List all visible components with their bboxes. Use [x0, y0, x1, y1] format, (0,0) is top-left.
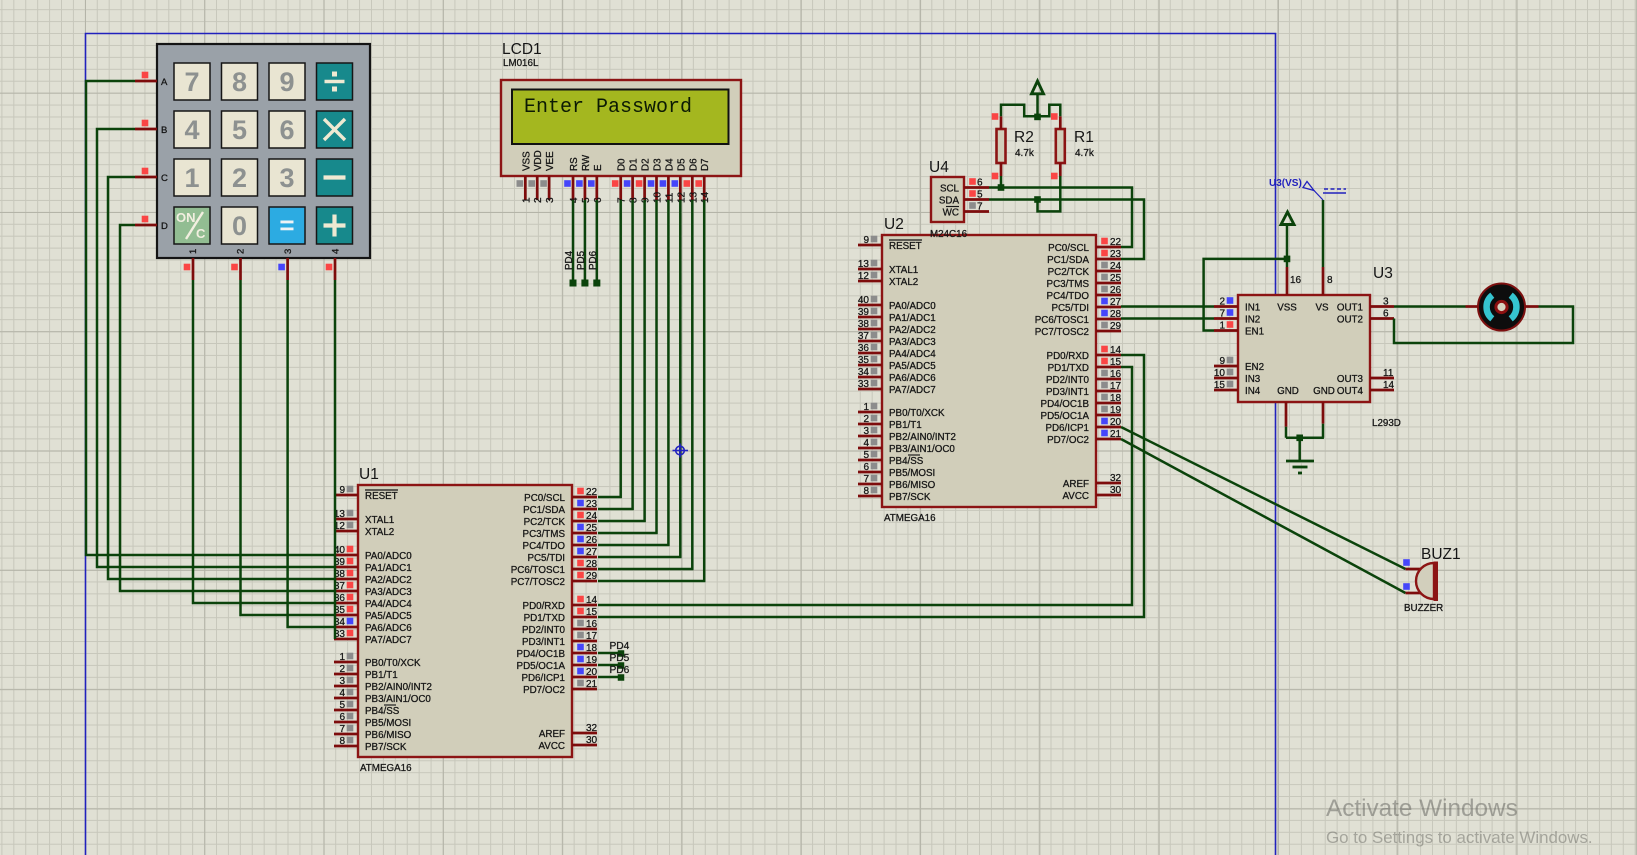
svg-text:12: 12: [858, 271, 870, 282]
svg-text:PB0/T0/XCK: PB0/T0/XCK: [365, 658, 421, 669]
svg-text:26: 26: [1110, 285, 1122, 296]
svg-text:4: 4: [863, 438, 869, 449]
svg-text:VDD: VDD: [533, 150, 544, 171]
svg-text:EN2: EN2: [1245, 362, 1264, 373]
svg-text:BUZZER: BUZZER: [1404, 603, 1443, 614]
svg-text:PA2/ADC2: PA2/ADC2: [365, 575, 412, 586]
svg-text:L293D: L293D: [1372, 418, 1401, 429]
svg-text:LCD1: LCD1: [502, 41, 542, 58]
svg-text:XTAL1: XTAL1: [365, 515, 394, 526]
svg-text:22: 22: [586, 487, 598, 498]
svg-text:3: 3: [339, 676, 345, 687]
svg-text:RESET: RESET: [365, 491, 398, 502]
svg-text:GND: GND: [1313, 386, 1335, 397]
svg-text:6: 6: [863, 462, 869, 473]
svg-text:21: 21: [586, 679, 598, 690]
svg-text:23: 23: [1110, 249, 1122, 260]
svg-text:PD4/OC1B: PD4/OC1B: [517, 649, 566, 660]
svg-text:IN2: IN2: [1245, 315, 1260, 326]
svg-text:SCL: SCL: [940, 184, 960, 195]
svg-text:PB7/SCK: PB7/SCK: [889, 492, 931, 503]
svg-text:27: 27: [1110, 297, 1122, 308]
svg-text:D5: D5: [676, 158, 687, 171]
svg-text:D7: D7: [700, 158, 711, 171]
svg-text:OUT2: OUT2: [1337, 315, 1363, 326]
svg-text:16: 16: [1110, 369, 1122, 380]
svg-text:9: 9: [279, 67, 294, 97]
svg-text:5: 5: [232, 115, 247, 145]
svg-text:PC6/TOSC1: PC6/TOSC1: [511, 565, 565, 576]
svg-text:14: 14: [700, 191, 711, 203]
svg-text:PA6/ADC6: PA6/ADC6: [889, 373, 936, 384]
svg-text:RS: RS: [569, 157, 580, 171]
svg-text:R1: R1: [1074, 129, 1094, 146]
svg-text:28: 28: [586, 559, 598, 570]
svg-text:PB3/AIN1/OC0: PB3/AIN1/OC0: [365, 694, 431, 705]
svg-text:PD1/TXD: PD1/TXD: [1048, 363, 1089, 374]
svg-text:2: 2: [339, 664, 345, 675]
svg-text:1: 1: [184, 163, 199, 193]
svg-text:ON: ON: [176, 210, 196, 225]
svg-text:1: 1: [188, 249, 199, 254]
svg-text:WC: WC: [943, 208, 959, 219]
svg-text:20: 20: [586, 667, 598, 678]
svg-text:PA0/ADC0: PA0/ADC0: [889, 301, 936, 312]
svg-text:28: 28: [1110, 309, 1122, 320]
svg-text:AREF: AREF: [1063, 479, 1089, 490]
svg-text:40: 40: [858, 295, 870, 306]
svg-text:PC0/SCL: PC0/SCL: [524, 493, 565, 504]
svg-text:PD0/RXD: PD0/RXD: [1047, 351, 1089, 362]
svg-text:12: 12: [676, 191, 687, 203]
svg-text:17: 17: [586, 631, 598, 642]
svg-text:16: 16: [586, 619, 598, 630]
svg-text:7: 7: [977, 202, 983, 213]
svg-text:PD6/ICP1: PD6/ICP1: [521, 673, 565, 684]
svg-text:PC7/TOSC2: PC7/TOSC2: [511, 577, 565, 588]
svg-text:PC5/TDI: PC5/TDI: [1051, 303, 1089, 314]
svg-text:27: 27: [586, 547, 598, 558]
svg-text:PD7/OC2: PD7/OC2: [523, 685, 565, 696]
svg-text:U4: U4: [929, 159, 949, 176]
svg-text:8: 8: [339, 736, 345, 747]
svg-text:7: 7: [1219, 309, 1225, 320]
svg-text:PC1/SDA: PC1/SDA: [523, 505, 565, 516]
svg-text:2: 2: [236, 249, 247, 254]
svg-text:33: 33: [858, 379, 870, 390]
svg-text:1: 1: [521, 197, 532, 203]
svg-text:7: 7: [339, 724, 345, 735]
svg-text:PA2/ADC2: PA2/ADC2: [889, 325, 936, 336]
svg-text:PB4/SS: PB4/SS: [889, 456, 924, 467]
svg-text:PB6/MISO: PB6/MISO: [365, 730, 412, 741]
svg-text:3: 3: [283, 249, 294, 254]
svg-text:8: 8: [232, 67, 247, 97]
svg-text:13: 13: [858, 259, 870, 270]
svg-text:25: 25: [586, 523, 598, 534]
svg-text:38: 38: [858, 319, 870, 330]
svg-text:PD2/INT0: PD2/INT0: [522, 625, 566, 636]
svg-text:D1: D1: [629, 158, 640, 171]
svg-text:36: 36: [858, 343, 870, 354]
svg-text:PA5/ADC5: PA5/ADC5: [365, 611, 412, 622]
svg-text:7: 7: [863, 474, 869, 485]
svg-text:32: 32: [1110, 473, 1122, 484]
svg-text:3: 3: [1383, 297, 1389, 308]
svg-text:22: 22: [1110, 237, 1122, 248]
svg-text:PC4/TDO: PC4/TDO: [1047, 291, 1090, 302]
svg-text:Go to Settings to activate Win: Go to Settings to activate Windows.: [1326, 828, 1593, 847]
svg-text:PC6/TOSC1: PC6/TOSC1: [1035, 315, 1089, 326]
svg-text:14: 14: [1383, 380, 1395, 391]
svg-text:15: 15: [1110, 357, 1122, 368]
svg-text:PC2/TCK: PC2/TCK: [524, 517, 566, 528]
svg-text:PA7/ADC7: PA7/ADC7: [365, 635, 412, 646]
svg-text:AREF: AREF: [539, 729, 565, 740]
svg-text:6: 6: [593, 197, 604, 203]
svg-text:16: 16: [1290, 275, 1302, 286]
svg-text:18: 18: [1110, 393, 1122, 404]
svg-text:26: 26: [586, 535, 598, 546]
svg-text:D6: D6: [688, 158, 699, 171]
svg-text:PB5/MOSI: PB5/MOSI: [365, 718, 411, 729]
svg-text:EN1: EN1: [1245, 327, 1264, 338]
svg-text:=: =: [279, 210, 294, 240]
svg-text:30: 30: [1110, 485, 1122, 496]
svg-text:B: B: [161, 125, 167, 136]
svg-text:PB4/SS: PB4/SS: [365, 706, 400, 717]
svg-text:PC0/SCL: PC0/SCL: [1048, 243, 1089, 254]
svg-text:30: 30: [586, 735, 598, 746]
svg-text:D0: D0: [617, 158, 628, 171]
svg-text:U1: U1: [359, 466, 379, 483]
svg-text:LM016L: LM016L: [503, 58, 539, 69]
svg-text:M24C16: M24C16: [930, 229, 968, 240]
svg-text:Activate Windows: Activate Windows: [1326, 795, 1518, 822]
svg-text:RESET: RESET: [889, 241, 922, 252]
svg-text:6: 6: [977, 178, 983, 189]
svg-text:VSS: VSS: [521, 151, 532, 171]
svg-text:IN4: IN4: [1245, 386, 1261, 397]
svg-text:PD6/ICP1: PD6/ICP1: [1045, 423, 1089, 434]
svg-text:17: 17: [1110, 381, 1122, 392]
svg-text:7: 7: [617, 197, 628, 203]
svg-text:PD0/RXD: PD0/RXD: [523, 601, 565, 612]
svg-text:39: 39: [858, 307, 870, 318]
svg-text:1: 1: [1219, 321, 1225, 332]
svg-text:14: 14: [1110, 345, 1122, 356]
svg-text:1: 1: [339, 652, 345, 663]
svg-text:PB5/MOSI: PB5/MOSI: [889, 468, 935, 479]
svg-text:11: 11: [1383, 368, 1394, 379]
svg-text:2: 2: [533, 197, 544, 203]
svg-text:PD3/INT1: PD3/INT1: [1046, 387, 1089, 398]
svg-text:PD5: PD5: [576, 250, 587, 270]
svg-text:15: 15: [586, 607, 598, 618]
svg-text:PA3/ADC3: PA3/ADC3: [365, 587, 412, 598]
svg-text:PC3/TMS: PC3/TMS: [1047, 279, 1090, 290]
svg-text:37: 37: [858, 331, 870, 342]
svg-text:PD5/OC1A: PD5/OC1A: [517, 661, 566, 672]
svg-text:PD3/INT1: PD3/INT1: [522, 637, 565, 648]
svg-text:PC4/TDO: PC4/TDO: [523, 541, 566, 552]
svg-text:VSS: VSS: [1277, 303, 1297, 314]
svg-text:OUT4: OUT4: [1337, 386, 1364, 397]
svg-text:4: 4: [184, 115, 199, 145]
svg-text:R2: R2: [1014, 129, 1034, 146]
svg-text:ATMEGA16: ATMEGA16: [360, 763, 412, 774]
svg-text:PD4/OC1B: PD4/OC1B: [1041, 399, 1090, 410]
svg-text:3: 3: [863, 426, 869, 437]
svg-text:PA7/ADC7: PA7/ADC7: [889, 385, 936, 396]
svg-text:PB7/SCK: PB7/SCK: [365, 742, 407, 753]
svg-text:IN3: IN3: [1245, 374, 1261, 385]
svg-text:4.7k: 4.7k: [1015, 148, 1035, 159]
svg-text:PD7/OC2: PD7/OC2: [1047, 435, 1089, 446]
svg-text:8: 8: [1327, 275, 1333, 286]
svg-text:PC5/TDI: PC5/TDI: [527, 553, 565, 564]
svg-text:PD5/OC1A: PD5/OC1A: [1041, 411, 1090, 422]
svg-text:34: 34: [858, 367, 870, 378]
svg-text:24: 24: [586, 511, 598, 522]
svg-text:3: 3: [279, 163, 294, 193]
svg-text:PB3/AIN1/OC0: PB3/AIN1/OC0: [889, 444, 955, 455]
svg-text:10: 10: [1214, 368, 1226, 379]
svg-text:PA3/ADC3: PA3/ADC3: [889, 337, 936, 348]
svg-text:XTAL1: XTAL1: [889, 265, 918, 276]
svg-text:9: 9: [863, 235, 869, 246]
svg-text:6: 6: [339, 712, 345, 723]
svg-text:25: 25: [1110, 273, 1122, 284]
svg-text:4.7k: 4.7k: [1075, 148, 1095, 159]
svg-text:U3(VS): U3(VS): [1269, 178, 1302, 189]
svg-text:GND: GND: [1277, 386, 1299, 397]
svg-text:3: 3: [545, 197, 556, 203]
svg-text:U3: U3: [1373, 265, 1393, 282]
svg-text:PA4/ADC4: PA4/ADC4: [889, 349, 936, 360]
svg-text:PA6/ADC6: PA6/ADC6: [365, 623, 412, 634]
svg-text:XTAL2: XTAL2: [365, 527, 394, 538]
svg-text:PD6: PD6: [610, 665, 630, 676]
svg-text:0: 0: [232, 211, 247, 241]
svg-text:1: 1: [863, 402, 869, 413]
svg-text:PA0/ADC0: PA0/ADC0: [365, 551, 412, 562]
svg-text:10: 10: [653, 191, 664, 203]
svg-text:PD6: PD6: [588, 250, 599, 270]
svg-text:5: 5: [863, 450, 869, 461]
svg-text:OUT1: OUT1: [1337, 303, 1363, 314]
svg-text:A: A: [161, 77, 168, 88]
svg-text:AVCC: AVCC: [1063, 491, 1090, 502]
svg-text:19: 19: [586, 655, 598, 666]
svg-text:5: 5: [581, 197, 592, 203]
svg-text:13: 13: [688, 191, 699, 203]
svg-text:PC1/SDA: PC1/SDA: [1047, 255, 1089, 266]
svg-text:PA1/ADC1: PA1/ADC1: [889, 313, 936, 324]
svg-text:D4: D4: [664, 158, 675, 171]
svg-text:2: 2: [232, 163, 247, 193]
svg-text:C: C: [196, 226, 206, 241]
svg-text:PD4: PD4: [610, 641, 630, 652]
svg-text:PB1/T1: PB1/T1: [889, 420, 922, 431]
svg-text:PA1/ADC1: PA1/ADC1: [365, 563, 412, 574]
svg-text:D: D: [161, 221, 168, 232]
svg-text:20: 20: [1110, 417, 1122, 428]
svg-text:PC2/TCK: PC2/TCK: [1048, 267, 1090, 278]
svg-text:PD2/INT0: PD2/INT0: [1046, 375, 1090, 386]
svg-text:PA5/ADC5: PA5/ADC5: [889, 361, 936, 372]
svg-text:IN1: IN1: [1245, 303, 1260, 314]
svg-text:19: 19: [1110, 405, 1122, 416]
svg-text:VS: VS: [1315, 303, 1329, 314]
svg-text:PB0/T0/XCK: PB0/T0/XCK: [889, 408, 945, 419]
svg-text:29: 29: [1110, 321, 1122, 332]
svg-text:SDA: SDA: [939, 196, 960, 207]
svg-text:E: E: [593, 164, 604, 171]
svg-text:PB2/AIN0/INT2: PB2/AIN0/INT2: [889, 432, 956, 443]
svg-text:PD5: PD5: [610, 653, 630, 664]
svg-text:D2: D2: [641, 158, 652, 171]
svg-text:PC3/TMS: PC3/TMS: [523, 529, 566, 540]
svg-text:9: 9: [1219, 356, 1225, 367]
svg-text:4: 4: [569, 197, 580, 203]
svg-text:4: 4: [339, 688, 345, 699]
svg-text:9: 9: [339, 485, 345, 496]
svg-text:9: 9: [641, 197, 652, 203]
svg-text:PB2/AIN0/INT2: PB2/AIN0/INT2: [365, 682, 432, 693]
svg-text:BUZ1: BUZ1: [1421, 546, 1461, 563]
svg-text:21: 21: [1110, 429, 1122, 440]
svg-text:ATMEGA16: ATMEGA16: [884, 513, 936, 524]
svg-text:8: 8: [863, 486, 869, 497]
svg-text:AVCC: AVCC: [539, 741, 566, 752]
svg-text:PB6/MISO: PB6/MISO: [889, 480, 936, 491]
svg-text:XTAL2: XTAL2: [889, 277, 918, 288]
svg-text:PC7/TOSC2: PC7/TOSC2: [1035, 327, 1089, 338]
svg-text:18: 18: [586, 643, 598, 654]
svg-text:6: 6: [279, 115, 294, 145]
svg-text:C: C: [161, 173, 168, 184]
svg-text:11: 11: [664, 192, 675, 203]
svg-text:PA4/ADC4: PA4/ADC4: [365, 599, 412, 610]
svg-text:7: 7: [184, 67, 199, 97]
svg-text:23: 23: [586, 499, 598, 510]
svg-text:D3: D3: [653, 158, 664, 171]
svg-text:29: 29: [586, 571, 598, 582]
svg-text:2: 2: [863, 414, 869, 425]
svg-text:PB1/T1: PB1/T1: [365, 670, 398, 681]
svg-text:PD4: PD4: [564, 250, 575, 270]
svg-text:35: 35: [858, 355, 870, 366]
svg-text:Enter Password: Enter Password: [524, 96, 692, 119]
svg-text:2: 2: [1219, 297, 1225, 308]
svg-text:OUT3: OUT3: [1337, 374, 1364, 385]
svg-text:32: 32: [586, 723, 598, 734]
svg-text:4: 4: [331, 249, 342, 254]
svg-text:15: 15: [1214, 380, 1226, 391]
svg-text:5: 5: [977, 190, 983, 201]
svg-text:14: 14: [586, 595, 598, 606]
svg-text:8: 8: [629, 197, 640, 203]
svg-text:5: 5: [339, 700, 345, 711]
svg-text:RW: RW: [581, 154, 592, 171]
svg-text:PD1/TXD: PD1/TXD: [524, 613, 565, 624]
svg-text:VEE: VEE: [545, 151, 556, 171]
svg-text:6: 6: [1383, 309, 1389, 320]
svg-text:U2: U2: [884, 216, 904, 233]
svg-text:24: 24: [1110, 261, 1122, 272]
